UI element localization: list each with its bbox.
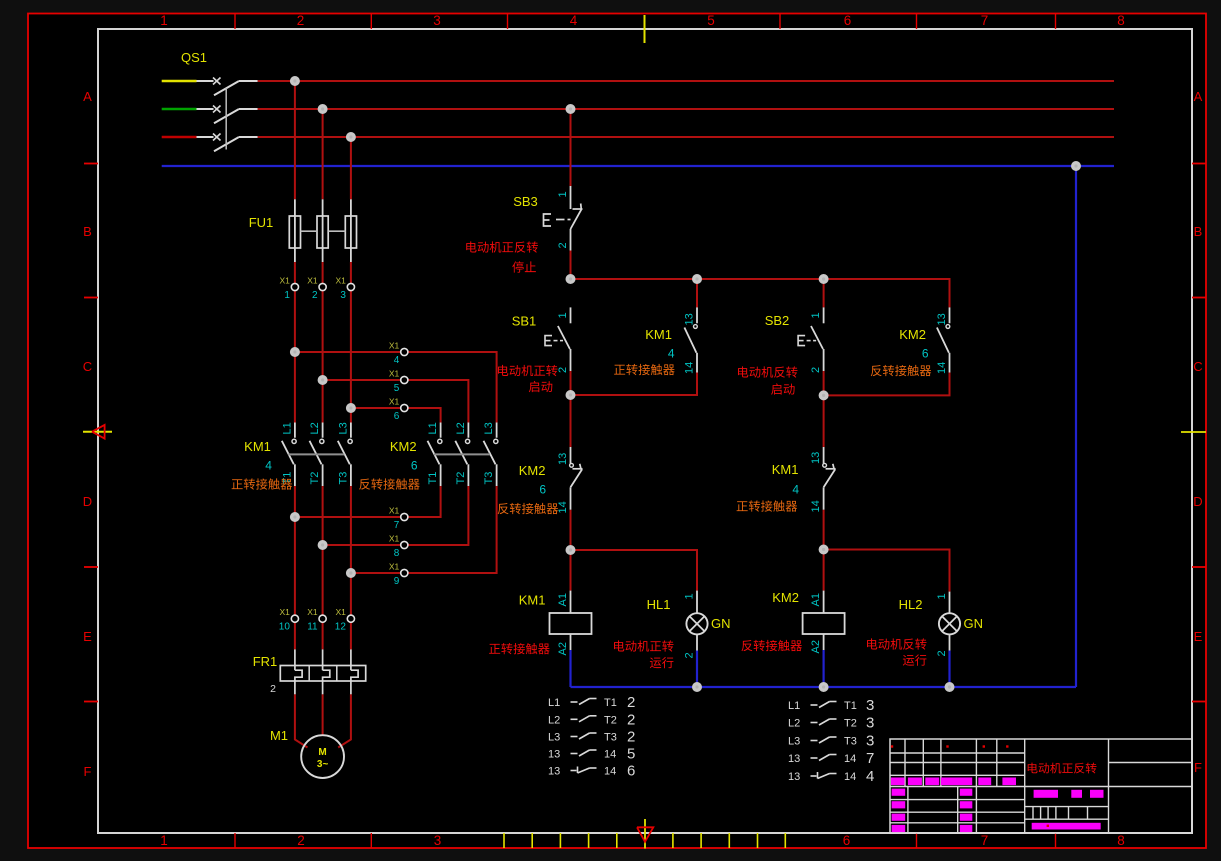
pushbutton SB3 (NC stop) [570, 186, 572, 209]
contactor KM2 main pole 1 [440, 423, 442, 438]
contact KM1 aux NC interlock [823, 447, 825, 464]
svg-text:14: 14 [557, 501, 569, 513]
KM2 coil name text [741, 640, 801, 651]
QS1 pole 3 lead-out [239, 136, 258, 138]
wire X1-9 return [351, 486, 497, 573]
KM1 NC name text [737, 500, 798, 511]
FU1 link bar [301, 230, 318, 232]
svg-text:T3: T3 [604, 732, 617, 744]
svg-text:F: F [1194, 760, 1202, 775]
svg-text:13: 13 [936, 313, 948, 325]
svg-text:T2: T2 [309, 472, 321, 485]
QS1 pole 1 lead-out [239, 80, 258, 82]
wire FR1 to motor V [322, 694, 324, 735]
svg-text:7: 7 [394, 520, 400, 531]
svg-text:11: 11 [307, 622, 318, 633]
KM2 main linkage [434, 453, 490, 455]
svg-text:1: 1 [284, 290, 290, 301]
HL2 name text line1 [867, 638, 926, 649]
svg-text:A: A [1194, 89, 1203, 104]
wire KM1 NC to rung3b [823, 510, 825, 550]
QS1 pole 1 blade [214, 81, 239, 95]
terminal X1-9 [401, 569, 408, 576]
terminal X1-6 [401, 404, 408, 411]
KM1 aux name text [614, 364, 675, 375]
svg-text:13: 13 [683, 313, 695, 325]
junction bus/KM2coil [819, 682, 829, 692]
wire rung2 down to KM2 NC [570, 395, 572, 447]
svg-text:13: 13 [810, 452, 822, 464]
HL2 name text line2 [903, 654, 927, 665]
bottom border tick 1 [370, 833, 372, 848]
svg-text:13: 13 [557, 453, 569, 465]
svg-text:6: 6 [627, 763, 635, 780]
svg-text:14: 14 [604, 766, 616, 778]
svg-text:3: 3 [434, 833, 442, 848]
svg-text:A1: A1 [810, 593, 822, 606]
svg-text:2: 2 [627, 729, 635, 746]
top border tick 1 [234, 14, 236, 29]
svg-text:X1: X1 [389, 341, 400, 351]
svg-text:14: 14 [810, 500, 822, 512]
QS1 pole 1 supply stub [162, 80, 197, 83]
pushbutton SB2 (NO start rev) [823, 307, 825, 323]
junction L3/FU1 [346, 132, 356, 142]
top border tick 3 [507, 14, 509, 29]
svg-text:2: 2 [810, 367, 822, 373]
fuse FU1 pole 1 body [289, 216, 300, 248]
KM1 main name text [232, 478, 293, 489]
bottom yellow scale tick 9 [784, 833, 786, 848]
fuse FU1 pole 2 lead [322, 199, 324, 262]
bottom yellow scale tick 2 [559, 833, 561, 848]
bottom border tick 2 [916, 833, 918, 848]
terminal X1-5 [401, 376, 408, 383]
svg-text:1: 1 [160, 13, 168, 28]
KM2 NC name text [498, 503, 558, 514]
lamp HL1 lead2 [696, 634, 698, 650]
svg-text:5: 5 [707, 13, 715, 28]
svg-text:X1: X1 [279, 276, 290, 286]
svg-text:14: 14 [604, 749, 616, 761]
svg-text:X1: X1 [389, 562, 400, 572]
svg-text:L2: L2 [788, 718, 800, 730]
junction L1/FU1 [290, 76, 300, 86]
top border tick 6 [1055, 14, 1057, 29]
wire fuse 2 to KM1 pole [322, 262, 324, 423]
svg-text:L2: L2 [455, 422, 467, 434]
HL1 name text line1 [614, 640, 673, 651]
svg-text:E: E [1194, 629, 1203, 644]
bottom yellow scale tick 4 [616, 833, 618, 848]
wire X1-8 return [323, 486, 469, 545]
svg-text:2: 2 [557, 367, 569, 373]
svg-text:A1: A1 [557, 593, 569, 606]
junction X1-4 tap [290, 347, 300, 357]
svg-text:6: 6 [394, 411, 400, 422]
svg-text:4: 4 [792, 483, 799, 497]
fuse FU1 pole 3 body [345, 216, 356, 248]
svg-text:KM1: KM1 [645, 327, 672, 342]
bottom yellow scale tick 8 [757, 833, 759, 848]
junction X1-8 [318, 540, 328, 550]
wire KM2 NC to rung3 [570, 510, 572, 550]
svg-text:T1: T1 [844, 700, 857, 712]
svg-text:M: M [318, 747, 326, 758]
left border tick 2 [84, 566, 98, 568]
terminal X1-10 [291, 615, 298, 622]
svg-text:B: B [1194, 224, 1203, 239]
top centre yellow marker [644, 15, 646, 43]
terminal X1-1 [291, 283, 298, 290]
top border tick 4 [779, 14, 781, 29]
SB3 function text line2 [512, 261, 536, 272]
KM1 main linkage [288, 453, 344, 455]
svg-text:M1: M1 [270, 728, 288, 743]
svg-text:T3: T3 [844, 736, 857, 748]
svg-text:KM2: KM2 [519, 463, 546, 478]
junction SB2/rung2b [819, 390, 829, 400]
wire fuse 3 to KM1 pole [350, 262, 352, 423]
wire KM1 T2 down [322, 486, 324, 649]
svg-text:KM2: KM2 [772, 590, 799, 605]
SB2 function text line2 [771, 383, 794, 394]
right border tick 2 [1192, 566, 1206, 568]
KM2 aux name text [871, 365, 931, 376]
left border tick 3 [84, 701, 98, 703]
svg-text:1: 1 [936, 593, 948, 599]
title block red marks [891, 745, 893, 747]
svg-text:X1: X1 [307, 607, 318, 617]
junction X1-6 tap [346, 403, 356, 413]
svg-text:SB1: SB1 [512, 314, 537, 329]
lamp HL2 lead [949, 592, 951, 614]
FR1 dividers [308, 666, 310, 682]
wire fuse 1 to KM1 pole [294, 262, 296, 423]
svg-text:HL1: HL1 [647, 597, 671, 612]
QS1 pole 3 lead-in [197, 136, 214, 138]
svg-text:2: 2 [936, 650, 948, 656]
QS1 pole 3 supply stub [162, 136, 197, 139]
svg-text:14: 14 [936, 362, 948, 374]
wire L2 tap to SB3 [570, 109, 572, 186]
wire X1-7 return [295, 486, 441, 517]
QS1 pole 1 lead-in [197, 80, 214, 82]
wire SB2 to rung2b [823, 371, 825, 395]
QS1 pole 2 lead-in [197, 108, 214, 110]
HL1 name text line2 [650, 657, 674, 668]
svg-text:4: 4 [570, 13, 578, 28]
svg-text:L1: L1 [427, 422, 439, 434]
right border tick 0 [1192, 163, 1206, 165]
right centre yellow marker [1181, 431, 1206, 433]
svg-text:D: D [1193, 494, 1202, 509]
wire X1-6 crossover [351, 408, 441, 423]
terminal X1-11 [319, 615, 326, 622]
fuse FU1 pole 3 lead [350, 199, 352, 262]
title block drawing name [1028, 763, 1097, 774]
lamp HL1 lead [696, 591, 698, 614]
wire bottom bus (blue) [571, 686, 1077, 688]
QS1 pole 3 hinge cross [213, 134, 221, 141]
svg-text:C: C [83, 359, 92, 374]
lamp HL2 [939, 613, 960, 634]
wire phase 3 drop to fuse [350, 137, 352, 199]
contact KM2 aux NO [949, 307, 951, 323]
svg-text:6: 6 [844, 13, 852, 28]
svg-text:2: 2 [297, 13, 305, 28]
wire blue riser [1075, 166, 1077, 687]
svg-text:2: 2 [312, 290, 318, 301]
terminal X1-12 [347, 615, 354, 622]
svg-text:4: 4 [265, 459, 272, 473]
SB1 function text line1 [498, 365, 557, 376]
coil KM1 [570, 591, 572, 613]
bottom border tick 3 [1055, 833, 1057, 848]
QS1 pole 2 supply stub [162, 108, 197, 111]
wire KM1 aux to rung2 [571, 373, 698, 396]
svg-text:X1: X1 [389, 397, 400, 407]
svg-text:2: 2 [297, 833, 305, 848]
svg-text:X1: X1 [307, 276, 318, 286]
pushbutton SB1 (NO start fwd) [570, 307, 572, 323]
svg-text:T3: T3 [337, 472, 349, 485]
wire rung1 to KM1 aux [696, 279, 698, 307]
terminal X1-3 [347, 283, 354, 290]
svg-text:8: 8 [394, 548, 400, 559]
svg-text:B: B [83, 224, 92, 239]
wire L2 phase bus [258, 108, 1114, 110]
left border tick 0 [84, 163, 98, 165]
svg-text:4: 4 [866, 768, 874, 785]
svg-text:6: 6 [922, 347, 929, 361]
bottom yellow scale tick 6 [700, 833, 702, 848]
svg-text:3: 3 [433, 13, 441, 28]
lamp HL1 [686, 613, 707, 634]
svg-text:KM1: KM1 [772, 462, 799, 477]
junction X1-7 [290, 512, 300, 522]
QS1 pole 2 blade [214, 109, 239, 123]
svg-text:L3: L3 [483, 422, 495, 434]
svg-text:3: 3 [866, 715, 874, 732]
svg-text:L3: L3 [788, 736, 800, 748]
contactor KM1 main pole 2 [322, 423, 324, 438]
junction bus/HL1 [692, 682, 702, 692]
wire FR1 to motor W [338, 694, 351, 747]
bottom yellow scale tick 5 [672, 833, 674, 848]
svg-text:2: 2 [557, 242, 569, 248]
coil KM2 [823, 591, 825, 613]
svg-text:L2: L2 [309, 422, 321, 434]
svg-text:SB2: SB2 [765, 313, 790, 328]
svg-text:D: D [83, 494, 92, 509]
junction L2/FU1 [318, 104, 328, 114]
svg-text:13: 13 [788, 771, 800, 783]
svg-text:KM1: KM1 [244, 439, 271, 454]
svg-text:L2: L2 [548, 714, 560, 726]
fuse FU1 pole 1 lead [294, 199, 296, 262]
svg-text:5: 5 [394, 383, 400, 394]
wire KM1 T1 down [294, 486, 296, 649]
wire L1 phase bus [258, 80, 1114, 82]
wire KM1 coil A2 to bus (blue) [569, 650, 571, 687]
svg-text:1: 1 [160, 833, 168, 848]
svg-text:L3: L3 [337, 422, 349, 434]
svg-text:FR1: FR1 [253, 654, 278, 669]
svg-text:T1: T1 [427, 472, 439, 485]
svg-text:7: 7 [981, 13, 989, 28]
wire N neutral bus (blue) [162, 165, 1114, 167]
QS1 pole 2 hinge cross [213, 106, 221, 113]
svg-text:14: 14 [683, 362, 695, 374]
wire phase 2 drop to fuse [322, 109, 324, 199]
svg-text:14: 14 [844, 771, 856, 783]
svg-text:1: 1 [810, 312, 822, 318]
QS1 pole 1 hinge cross [213, 78, 221, 85]
wire X1-4 crossover [295, 352, 497, 423]
wire rung3b to HL2 [824, 550, 950, 592]
top border tick 5 [916, 14, 918, 29]
svg-text:2: 2 [627, 711, 635, 728]
svg-text:C: C [1193, 359, 1202, 374]
svg-text:6: 6 [411, 459, 418, 473]
bottom yellow scale tick 3 [588, 833, 590, 848]
svg-text:7: 7 [981, 833, 989, 848]
svg-text:T3: T3 [483, 472, 495, 485]
svg-text:13: 13 [548, 766, 560, 778]
svg-text:T2: T2 [455, 472, 467, 485]
contactor KM2 main pole 2 [467, 423, 469, 438]
QS1 linkage bar [225, 88, 227, 150]
junction rung3b/HL2 branch [819, 545, 829, 555]
svg-text:12: 12 [335, 622, 347, 633]
svg-text:GN: GN [964, 616, 984, 631]
wire rung3 to KM1 coil [570, 550, 572, 591]
svg-text:13: 13 [548, 749, 560, 761]
svg-text:X1: X1 [389, 506, 400, 516]
svg-text:8: 8 [1117, 13, 1125, 28]
terminal X1-8 [401, 541, 408, 548]
junction N/blue drop [1071, 161, 1081, 171]
svg-text:L1: L1 [281, 422, 293, 434]
SB2 function text line1 [738, 366, 797, 377]
svg-text:A: A [83, 89, 92, 104]
svg-text:T1: T1 [604, 697, 617, 709]
svg-text:GN: GN [711, 616, 731, 631]
bottom yellow scale tick 1 [531, 833, 533, 848]
svg-text:FU1: FU1 [249, 215, 274, 230]
wire rung2b down to KM1 NC [823, 395, 825, 447]
bottom yellow scale tick 0 [503, 833, 505, 848]
QS1 pole 2 lead-out [239, 108, 258, 110]
svg-text:HL2: HL2 [899, 597, 923, 612]
svg-text:X1: X1 [279, 607, 290, 617]
SB1 function text line2 [529, 381, 552, 392]
svg-text:4: 4 [394, 355, 400, 366]
svg-text:1: 1 [683, 593, 695, 599]
svg-text:1: 1 [557, 312, 569, 318]
wire KM2 aux to rung2b [824, 373, 950, 396]
wire HL1 to bus (blue) [696, 651, 698, 688]
title block magenta fields [891, 778, 905, 786]
SB3 function text line1 [466, 241, 538, 252]
svg-text:9: 9 [394, 576, 400, 587]
svg-text:A2: A2 [810, 640, 822, 653]
motor M1 circle [301, 735, 344, 778]
svg-text:1: 1 [557, 191, 569, 197]
svg-text:8: 8 [1117, 833, 1125, 848]
svg-text:4: 4 [668, 347, 675, 361]
svg-text:3: 3 [866, 697, 874, 714]
wire rung3b to KM2 coil [823, 550, 825, 591]
wire L3 phase bus [258, 136, 1114, 138]
wire rung3 to HL1 [571, 550, 698, 591]
svg-text:3: 3 [866, 733, 874, 750]
svg-text:2: 2 [627, 694, 635, 711]
wire SB1 to rung2 [570, 371, 572, 395]
wire HL2 to bus (blue) [948, 651, 950, 688]
title block grid [890, 739, 1192, 833]
wire KM1 T3 down [350, 486, 352, 649]
svg-text:L1: L1 [788, 700, 800, 712]
wire FR1 to motor U [295, 694, 308, 747]
contactor KM1 main pole 3 [350, 423, 352, 438]
junction X1-9 [346, 568, 356, 578]
junction SB1/rung2 [566, 390, 576, 400]
svg-text:KM2: KM2 [390, 439, 417, 454]
svg-text:QS1: QS1 [181, 50, 207, 65]
left centre arrow marker [83, 431, 112, 433]
svg-text:5: 5 [627, 746, 635, 763]
terminal X1-2 [319, 283, 326, 290]
left border tick 1 [84, 297, 98, 299]
wire X1-5 crossover [323, 380, 469, 423]
QS1 pole 3 blade [214, 137, 239, 151]
svg-text:F: F [84, 764, 92, 779]
svg-text:6: 6 [843, 833, 851, 848]
svg-text:13: 13 [788, 753, 800, 765]
svg-text:X1: X1 [335, 276, 346, 286]
svg-text:X1: X1 [335, 607, 346, 617]
contact KM1 aux NO [696, 307, 698, 323]
lamp HL2 lead2 [949, 634, 951, 650]
right border tick 1 [1192, 297, 1206, 299]
svg-text:T1: T1 [281, 472, 293, 485]
bottom border tick 0 [234, 833, 236, 848]
svg-text:E: E [83, 629, 92, 644]
FR1 heater elements [294, 649, 296, 670]
svg-text:A2: A2 [557, 642, 569, 655]
contactor KM2 main pole 3 [496, 423, 498, 438]
FR1 box [280, 666, 365, 682]
KM2 main name text [359, 478, 419, 489]
contactor KM1 main pole 1 [294, 423, 296, 438]
KM1 coil name text [489, 643, 550, 654]
junction bus/HL2 [945, 682, 955, 692]
svg-text:X1: X1 [389, 369, 400, 379]
wire KM2 coil A2 to bus (blue) [822, 650, 824, 687]
svg-text:X1: X1 [389, 534, 400, 544]
junction L2/control tap [566, 104, 576, 114]
terminal X1-4 [401, 348, 408, 355]
svg-text:KM1: KM1 [519, 593, 546, 608]
svg-text:14: 14 [844, 753, 856, 765]
svg-text:2: 2 [270, 683, 276, 695]
wire SB3 to rung1 [570, 251, 572, 280]
svg-text:3: 3 [340, 290, 346, 301]
svg-text:KM2: KM2 [899, 327, 926, 342]
junction SB3/rung1 [566, 274, 576, 284]
